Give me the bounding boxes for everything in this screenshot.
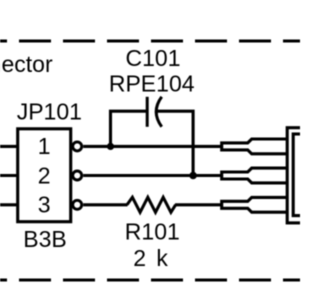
svg-text:R101: R101 xyxy=(125,219,180,245)
svg-text:RPE104: RPE104 xyxy=(109,71,195,97)
svg-text:2: 2 xyxy=(38,162,51,188)
svg-text:2 k: 2 k xyxy=(133,245,168,271)
svg-text:JP101: JP101 xyxy=(17,99,82,125)
svg-text:B3B: B3B xyxy=(23,226,66,252)
svg-text:1: 1 xyxy=(38,133,51,159)
svg-text:Connector: Connector xyxy=(0,51,53,77)
svg-text:C101: C101 xyxy=(126,45,181,71)
svg-text:3: 3 xyxy=(38,191,51,217)
